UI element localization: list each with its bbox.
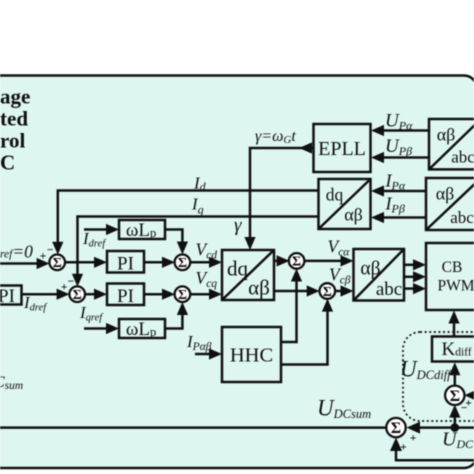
svg-text:−: − — [68, 276, 75, 288]
svg-text:Σ: Σ — [178, 288, 187, 303]
svg-text:αβ: αβ — [248, 276, 270, 300]
svg-text:Σ: Σ — [73, 288, 82, 303]
svg-text:abc: abc — [450, 208, 474, 227]
svg-text:abc: abc — [376, 279, 402, 300]
svg-text:Σ: Σ — [391, 420, 401, 437]
svg-text:ted: ted — [0, 107, 28, 131]
svg-text:−: − — [47, 244, 54, 256]
svg-text:αβ: αβ — [436, 184, 455, 204]
svg-text:C: C — [0, 151, 15, 175]
svg-text:+: + — [400, 442, 407, 454]
svg-text:CB: CB — [442, 259, 463, 276]
svg-text:Σ: Σ — [323, 285, 332, 300]
svg-text:PI: PI — [117, 253, 134, 274]
svg-text:Σ: Σ — [178, 256, 187, 271]
svg-text:age: age — [0, 85, 30, 109]
svg-text:+: + — [410, 433, 417, 445]
svg-text:EPLL: EPLL — [318, 138, 366, 160]
svg-text:Σ: Σ — [450, 388, 460, 405]
svg-text:+: + — [61, 282, 68, 294]
svg-text:αβ: αβ — [344, 205, 363, 225]
svg-text:dq: dq — [227, 257, 249, 281]
svg-text:rol: rol — [0, 129, 25, 153]
svg-text:dq: dq — [326, 185, 344, 205]
svg-text:+: + — [40, 251, 47, 263]
svg-text:αβ: αβ — [437, 125, 456, 145]
svg-text:Σ: Σ — [292, 255, 301, 270]
svg-text:PWM: PWM — [437, 278, 474, 295]
svg-text:PI: PI — [0, 286, 15, 307]
svg-text:PI: PI — [117, 286, 134, 307]
svg-text:Σ: Σ — [53, 256, 62, 271]
svg-text:abc: abc — [451, 148, 474, 167]
svg-text:−: − — [461, 403, 468, 415]
svg-text:γ: γ — [234, 215, 242, 236]
svg-text:HHC: HHC — [230, 345, 273, 367]
svg-text:αβ: αβ — [360, 259, 380, 280]
